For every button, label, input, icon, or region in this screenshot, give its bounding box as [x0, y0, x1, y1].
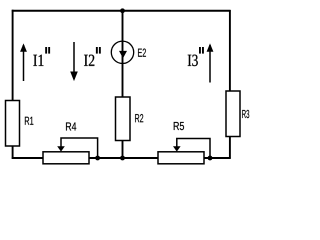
- source E2 arrowhead: [119, 51, 127, 58]
- R4 wiper bracket wire: [61, 138, 98, 158]
- wire R1 bottom to corner: [12, 146, 14, 159]
- label I1: [33, 55, 43, 66]
- label R5: [174, 122, 184, 130]
- wire middle branch upper: [122, 10, 124, 41]
- wire R5 to right corner: [204, 157, 231, 159]
- wire right border upper vertical: [229, 10, 231, 91]
- current arrow I2 head: [70, 72, 78, 82]
- label I3 double prime: [199, 47, 201, 54]
- resistor R3: [226, 91, 240, 137]
- node dot R4 right: [95, 156, 100, 161]
- label R1: [25, 117, 33, 125]
- resistor R5 (rheostat body): [158, 152, 204, 164]
- wire R4 to node: [89, 157, 158, 159]
- wire right border lower vertical: [229, 137, 231, 159]
- R5 wiper bracket wire: [177, 139, 210, 159]
- current arrow I1 shaft: [23, 45, 25, 81]
- wire top horizontal: [12, 10, 231, 12]
- current arrow I2 shaft: [73, 42, 75, 79]
- resistor R2: [116, 97, 131, 141]
- label R3: [242, 110, 249, 118]
- wire through E2 circle: [122, 41, 124, 63]
- wire left border vertical: [12, 10, 14, 101]
- label I3: [188, 55, 198, 66]
- wire bottom left segment: [12, 157, 43, 159]
- current arrow I3 head: [207, 43, 214, 51]
- resistor R4 (rheostat body): [43, 152, 89, 164]
- label E2: [138, 49, 146, 57]
- label I2 double prime: [96, 47, 98, 54]
- node dot middle bottom: [120, 156, 125, 161]
- wire R2 bottom to node: [122, 141, 124, 159]
- resistor R1: [6, 101, 20, 147]
- current arrow I1 head: [20, 43, 27, 51]
- R5 wiper arrowhead: [173, 146, 181, 151]
- label I1 double prime: [45, 47, 47, 54]
- label R2: [135, 114, 143, 122]
- node dot R5 right: [208, 156, 213, 161]
- label R4: [66, 122, 76, 130]
- node dot top: [120, 8, 125, 13]
- wire E2 to R2: [122, 63, 124, 97]
- source E2 circle: [111, 41, 133, 63]
- current arrow I3 shaft: [209, 45, 211, 83]
- label I2: [84, 55, 94, 66]
- R4 wiper arrowhead: [57, 146, 65, 151]
